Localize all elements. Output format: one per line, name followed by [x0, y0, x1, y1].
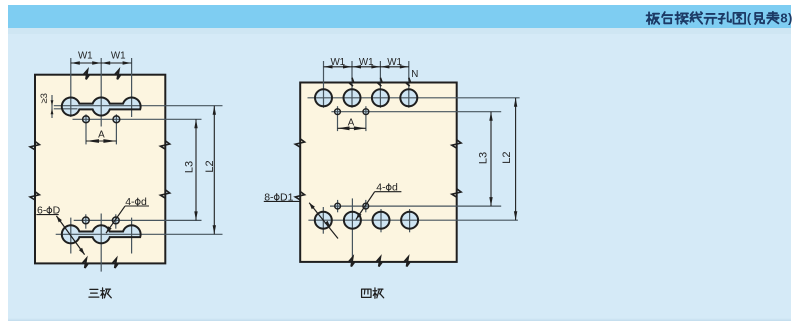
svg-text:W1: W1: [78, 51, 93, 62]
svg-text:W1: W1: [330, 57, 345, 68]
svg-text:8: 8: [780, 11, 787, 26]
svg-text:W1: W1: [111, 51, 126, 62]
svg-text:N: N: [411, 69, 418, 80]
svg-text:L3: L3: [478, 152, 490, 164]
svg-text:A: A: [98, 129, 105, 140]
svg-text:A: A: [348, 118, 355, 129]
svg-text:L2: L2: [204, 160, 216, 172]
svg-text:W1: W1: [359, 57, 374, 68]
svg-text:L3: L3: [184, 161, 196, 173]
svg-text:(: (: [747, 11, 752, 26]
svg-text:L2: L2: [501, 151, 513, 163]
svg-text:W1: W1: [387, 57, 402, 68]
svg-text:): ): [788, 11, 792, 26]
svg-text:≥3: ≥3: [39, 93, 50, 104]
